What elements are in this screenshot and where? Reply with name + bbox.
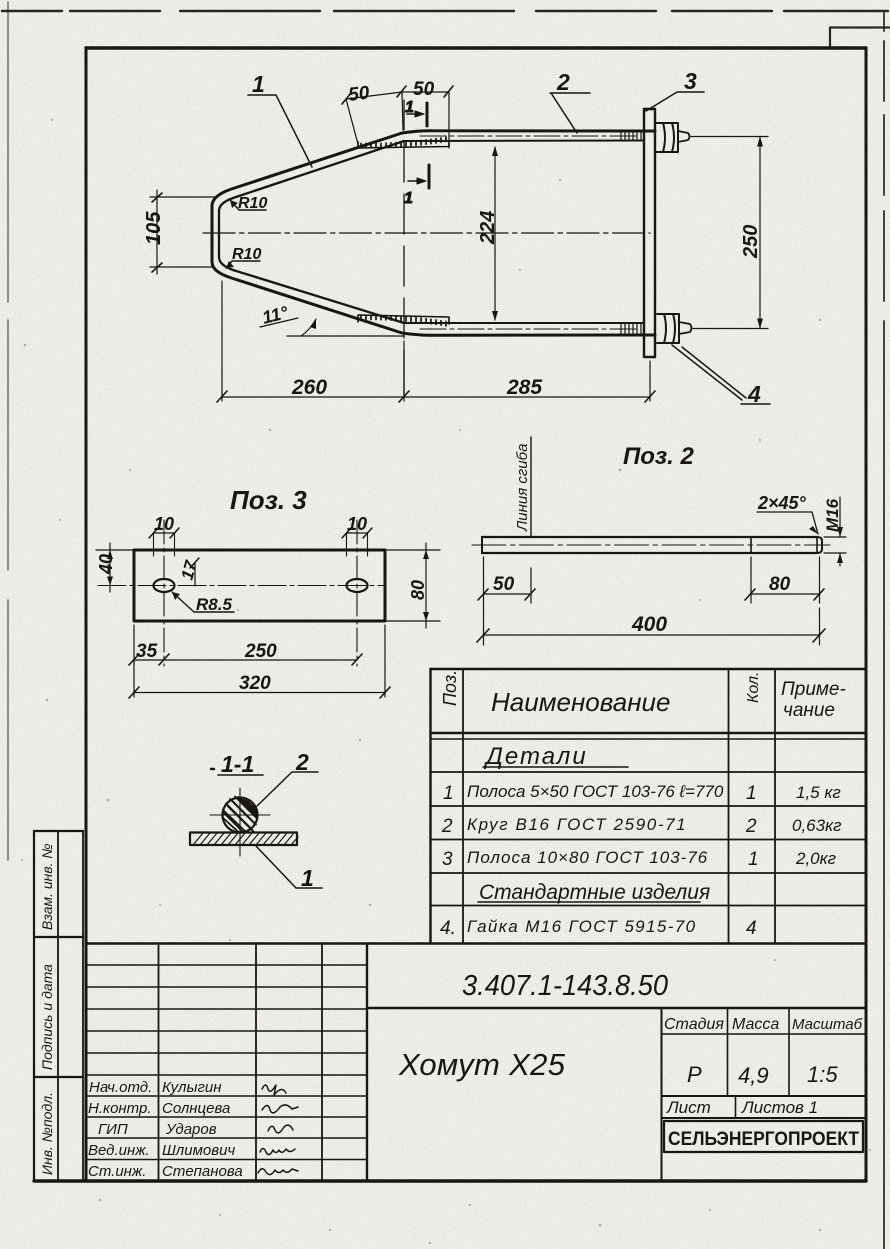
svg-text:80: 80 xyxy=(769,574,791,595)
svg-text:2,0кг: 2,0кг xyxy=(795,849,836,868)
svg-text:2: 2 xyxy=(441,816,453,837)
svg-text:40: 40 xyxy=(96,554,116,575)
right sub-table xyxy=(662,1008,867,1181)
strip bar hatched xyxy=(190,833,297,846)
svg-text:Нач.отд.: Нач.отд. xyxy=(89,1079,152,1096)
R8.5 callout xyxy=(172,592,234,614)
svg-text:Полоса 5×50 ГОСТ 103-76 ℓ=770: Полоса 5×50 ГОСТ 103-76 ℓ=770 xyxy=(467,782,724,801)
bottom rod thread hatch xyxy=(621,324,641,334)
section line 1-1 xyxy=(403,100,405,398)
svg-text:R10: R10 xyxy=(232,246,261,263)
svg-text:ГИП: ГИП xyxy=(98,1121,128,1138)
section arrow bottom xyxy=(404,165,429,207)
dim 80 xyxy=(745,557,824,603)
svg-text:Солнцева: Солнцева xyxy=(162,1100,230,1117)
title block top border xyxy=(86,942,866,945)
R10 bottom callout xyxy=(226,246,261,268)
svg-text:Взам. инв. №: Взам. инв. № xyxy=(39,843,55,930)
signature grid rows xyxy=(86,965,367,1160)
svg-text:2: 2 xyxy=(745,816,757,837)
svg-text:10: 10 xyxy=(154,514,174,534)
chamfer callout 2x45 xyxy=(757,493,818,534)
dim 400 xyxy=(477,608,825,645)
sidebar frame xyxy=(34,831,83,1181)
circle centerlines xyxy=(210,788,270,856)
svg-text:СЕЛЬЭНЕРГОПРОЕКТ: СЕЛЬЭНЕРГОПРОЕКТ xyxy=(668,1129,859,1150)
svg-text:3: 3 xyxy=(684,68,697,94)
svg-text:1: 1 xyxy=(746,783,757,804)
svg-text:1: 1 xyxy=(405,99,414,116)
pos label 1 xyxy=(248,71,312,167)
dim 10 left xyxy=(149,514,179,556)
svg-text:80: 80 xyxy=(408,580,428,600)
svg-text:3.407.1-143.8.50: 3.407.1-143.8.50 xyxy=(462,970,668,1002)
dim 250 xyxy=(691,137,768,329)
bottom weld serration ticks xyxy=(361,315,446,326)
svg-text:Степанова: Степанова xyxy=(162,1163,243,1180)
svg-text:250: 250 xyxy=(740,225,762,259)
dim 80 xyxy=(385,543,440,628)
bottom rod tip xyxy=(679,322,692,334)
top nut xyxy=(656,123,678,152)
svg-text:1: 1 xyxy=(748,849,759,870)
slot hole right xyxy=(347,579,368,592)
svg-text:50: 50 xyxy=(413,79,435,100)
rod section circle hatched xyxy=(223,798,258,833)
svg-text:1: 1 xyxy=(301,865,314,891)
bottom run outer line xyxy=(402,333,655,335)
svg-text:250: 250 xyxy=(244,641,277,662)
dim 50 right xyxy=(402,79,453,148)
dim 50 left (oblique) xyxy=(342,82,406,148)
svg-text:105: 105 xyxy=(143,211,165,245)
rod centerline xyxy=(472,544,830,546)
svg-text:Р: Р xyxy=(687,1062,702,1087)
svg-text:4: 4 xyxy=(746,918,757,939)
svg-text:Поз. 2: Поз. 2 xyxy=(623,443,695,470)
svg-text:35: 35 xyxy=(136,641,158,662)
svg-text:Инв. №подл.: Инв. №подл. xyxy=(39,1092,55,1175)
svg-text:Поз.: Поз. xyxy=(440,670,460,706)
svg-text:4.: 4. xyxy=(440,918,456,939)
top run outer line xyxy=(402,131,655,133)
strap inner outline xyxy=(219,141,404,323)
bend line xyxy=(530,437,532,536)
svg-text:Линия сгиба: Линия сгиба xyxy=(514,444,531,532)
big box left border xyxy=(366,944,368,1182)
svg-text:2×45°: 2×45° xyxy=(757,493,807,513)
svg-text:R10: R10 xyxy=(238,195,267,212)
svg-text:320: 320 xyxy=(239,673,271,694)
svg-text:3: 3 xyxy=(442,849,453,870)
svg-text:285: 285 xyxy=(506,376,542,399)
slot hole left xyxy=(154,579,175,592)
section arrow top xyxy=(405,99,427,126)
dim 224 xyxy=(477,146,499,321)
svg-text:чание: чание xyxy=(783,700,835,721)
svg-text:1:5: 1:5 xyxy=(807,1062,838,1087)
svg-text:1: 1 xyxy=(404,190,413,207)
bottom run inner line xyxy=(404,322,643,324)
vertical centerline right hole xyxy=(356,520,358,666)
svg-text:Ударов: Ударов xyxy=(165,1121,217,1138)
signature row labels xyxy=(88,1079,243,1180)
bottom rod centerline xyxy=(420,328,640,330)
svg-text:50: 50 xyxy=(493,574,515,595)
svg-text:10: 10 xyxy=(347,514,367,534)
R10 top callout xyxy=(230,195,267,212)
svg-text:50: 50 xyxy=(347,82,371,105)
dim 40 xyxy=(96,543,134,592)
svg-text:Гайка М16 ГОСТ 5915-70: Гайка М16 ГОСТ 5915-70 xyxy=(467,917,697,936)
svg-text:Кол.: Кол. xyxy=(745,672,762,703)
signatures squiggles xyxy=(258,1085,298,1175)
top rod centerline xyxy=(420,135,640,137)
rod body xyxy=(482,537,822,553)
doc number row divider xyxy=(367,1007,866,1009)
vertical centerline left hole xyxy=(163,520,165,666)
dim 35 / 250 xyxy=(129,625,362,665)
bottom nut xyxy=(657,314,679,343)
dim 10 right xyxy=(342,514,372,556)
svg-text:Вед.инж.: Вед.инж. xyxy=(88,1142,150,1159)
svg-text:Хомут Х25: Хомут Х25 xyxy=(398,1047,566,1082)
svg-text:1-1: 1-1 xyxy=(221,751,254,777)
pos label 3 xyxy=(646,68,704,111)
dim 320 xyxy=(129,625,390,698)
horizontal centerline xyxy=(98,585,385,587)
top run inner line xyxy=(404,140,643,143)
table grid xyxy=(431,669,867,943)
svg-text:Детали: Детали xyxy=(483,743,588,770)
svg-text:Приме-: Приме- xyxy=(781,679,846,700)
svg-text:4,9: 4,9 xyxy=(738,1063,769,1088)
signature grid verticals xyxy=(159,944,368,1182)
dim 105 xyxy=(143,190,214,274)
svg-text:Стандартные изделия: Стандартные изделия xyxy=(479,881,710,904)
pos label 2 xyxy=(550,69,590,133)
dim 17 small xyxy=(178,557,202,586)
svg-text:2: 2 xyxy=(295,749,309,775)
svg-text:224: 224 xyxy=(477,211,499,245)
svg-text:Круг В16 ГОСТ 2590-71: Круг В16 ГОСТ 2590-71 xyxy=(467,815,687,834)
svg-text:М16: М16 xyxy=(823,498,842,532)
svg-text:Ст.инж.: Ст.инж. xyxy=(88,1163,146,1180)
svg-text:R8.5: R8.5 xyxy=(196,595,232,614)
bottom weld overlap band xyxy=(358,315,449,324)
top rod tip xyxy=(678,131,690,142)
M16 dim xyxy=(823,497,846,566)
angle 11 deg xyxy=(260,302,404,336)
svg-text:Кулыгин: Кулыгин xyxy=(162,1079,222,1096)
svg-text:1,5 кг: 1,5 кг xyxy=(796,783,841,802)
strap outer outline xyxy=(212,133,402,333)
plate rectangle xyxy=(134,550,385,621)
plate P3 front bar xyxy=(644,109,655,357)
clamp centerline xyxy=(203,232,650,234)
svg-text:Шлимович: Шлимович xyxy=(162,1142,235,1159)
svg-text:400: 400 xyxy=(631,613,667,636)
svg-text:Стадия: Стадия xyxy=(664,1016,724,1033)
label 1 xyxy=(255,845,322,891)
svg-text:2: 2 xyxy=(556,69,570,95)
svg-text:Масштаб: Масштаб xyxy=(792,1016,863,1033)
svg-text:Подпись и дата: Подпись и дата xyxy=(39,964,55,1070)
svg-text:4: 4 xyxy=(747,381,761,407)
svg-text:Наименование: Наименование xyxy=(491,687,670,717)
dim 260 / 285 xyxy=(217,281,655,402)
org box xyxy=(664,1121,863,1152)
svg-text:Полоса 10×80 ГОСТ 103-76: Полоса 10×80 ГОСТ 103-76 xyxy=(467,848,708,867)
svg-text:Поз. 3: Поз. 3 xyxy=(230,485,307,515)
svg-text:1: 1 xyxy=(443,783,454,804)
svg-text:Листов 1: Листов 1 xyxy=(741,1098,818,1117)
top rod thread hatch xyxy=(621,132,641,140)
svg-text:260: 260 xyxy=(291,376,327,399)
svg-text:0,63кг: 0,63кг xyxy=(792,816,842,835)
svg-text:Лист: Лист xyxy=(666,1098,711,1117)
top weld serration ticks xyxy=(361,137,446,148)
pos label 4 leaders xyxy=(672,345,770,407)
svg-text:1: 1 xyxy=(252,71,265,97)
label 2 xyxy=(257,749,318,806)
svg-text:Н.контр.: Н.контр. xyxy=(88,1100,152,1117)
dim 50 xyxy=(478,557,535,645)
svg-text:Масса: Масса xyxy=(732,1016,779,1033)
top weld overlap band xyxy=(358,141,449,149)
